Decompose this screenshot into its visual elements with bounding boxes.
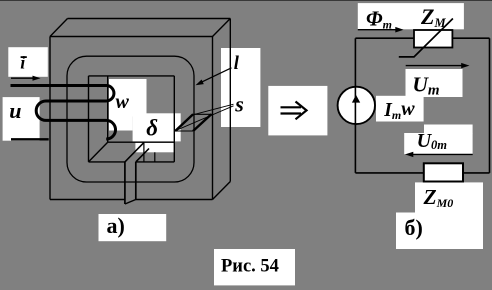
- label box w lower patch: [109, 117, 133, 131]
- svg-text:i: i: [20, 53, 25, 73]
- current i arrow: [11, 76, 41, 81]
- svg-text:l: l: [234, 54, 240, 74]
- window back left edge: [107, 76, 109, 142]
- air gap left cut front edge: [124, 162, 126, 204]
- air gap back cut edge right: [154, 152, 156, 162]
- label box delta lower patch: [135, 143, 174, 153]
- impedance ZM box: [414, 30, 452, 48]
- svg-text:δ: δ: [146, 116, 158, 141]
- cross-section s back diagonal: [193, 114, 211, 131]
- wire left: [354, 38, 356, 173]
- label box a): [99, 214, 167, 241]
- air gap bottom notch diagonal: [125, 200, 136, 205]
- air gap right cut front edge: [135, 162, 137, 200]
- cross-section s front diagonal: [175, 114, 193, 131]
- core outer front face rectangle: [50, 37, 213, 200]
- mean flux path line l (rounded rectangle): [67, 56, 194, 182]
- top border line: [0, 0, 492, 2]
- wire top left: [355, 37, 414, 39]
- label box i: [8, 47, 48, 77]
- window back bottom edge: [108, 141, 175, 143]
- Um arrow: [406, 63, 470, 68]
- overbar of i: [21, 56, 27, 58]
- label box delta: [133, 113, 181, 141]
- U0m arrow: [405, 152, 473, 157]
- lower terminal wire to u: [11, 138, 49, 140]
- label box Um: [406, 69, 463, 97]
- svg-text:Рис. 54: Рис. 54: [221, 257, 279, 277]
- core depth diagonal top-right: [213, 19, 231, 37]
- label box b): [396, 213, 456, 250]
- label box u: [3, 97, 40, 141]
- wire top right: [452, 37, 489, 39]
- leader line from s to section bottom corner: [176, 106, 234, 131]
- label box Ris 54: [214, 249, 295, 285]
- MMF source arrowhead: [352, 95, 360, 103]
- air gap left cut top diagonal: [125, 143, 144, 162]
- core depth diagonal top-left: [50, 19, 68, 37]
- wire right: [489, 38, 491, 173]
- label box ZM0: [415, 182, 483, 249]
- label box Phi and ZM (top right): [358, 3, 464, 29]
- air gap right cut top diagonal: [136, 149, 149, 162]
- label box l and s: [221, 48, 260, 127]
- wire through MMF source: [354, 86, 356, 126]
- window front rectangle: [89, 76, 175, 162]
- implies arrow glyph: [281, 102, 307, 120]
- cross-section s top line: [193, 113, 212, 115]
- wire bottom: [355, 172, 489, 174]
- window depth diagonal bottom-left: [89, 142, 108, 162]
- air gap back cut edge left: [143, 143, 145, 162]
- svg-text:w: w: [116, 91, 130, 113]
- svg-text:б): б): [405, 215, 423, 240]
- svg-text:s: s: [234, 92, 244, 117]
- arrow from l to flux line: [196, 68, 232, 86]
- core depth diagonal bottom-right: [213, 182, 231, 200]
- leader line from s to section top corner: [194, 104, 234, 114]
- svg-text:а): а): [107, 213, 125, 238]
- label box arrow implies: [268, 86, 327, 135]
- svg-text:u: u: [9, 98, 21, 123]
- variable impedance slash through ZM: [399, 19, 453, 57]
- label box w: [109, 79, 147, 117]
- core back right edge: [229, 19, 231, 182]
- cross-section s bottom line: [174, 130, 193, 132]
- MMF source circle: [338, 87, 375, 124]
- winding w serpentine: [11, 86, 116, 140]
- impedance ZM0 box: [424, 163, 463, 181]
- flux Phi_m arrow: [358, 27, 404, 33]
- label box U0m: [424, 125, 473, 134]
- label box Imw: [376, 96, 424, 122]
- core back top edge: [68, 18, 231, 20]
